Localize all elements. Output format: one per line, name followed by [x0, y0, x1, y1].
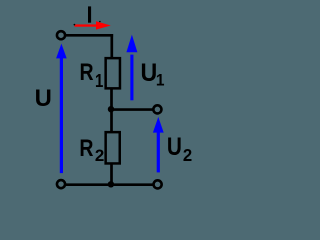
terminal bottom-left	[57, 180, 65, 188]
middle wire to right terminal	[111, 108, 153, 111]
svg-text:R: R	[79, 134, 93, 161]
svg-text:1: 1	[95, 70, 103, 91]
terminal bottom-right	[154, 180, 162, 188]
svg-text:1: 1	[156, 72, 165, 89]
terminal middle-right	[153, 105, 161, 113]
voltage arrow U (blue)	[56, 44, 67, 174]
wire: R1 to junction	[110, 88, 113, 109]
svg-text:U: U	[141, 59, 158, 87]
top wire	[66, 34, 113, 37]
junction node (middle)	[108, 106, 114, 112]
speck at arrow tail	[74, 24, 76, 26]
bottom wire	[66, 183, 153, 186]
wire: R2 down to bottom	[110, 164, 113, 186]
background canvas	[0, 0, 220, 198]
current arrow I (red)	[74, 21, 110, 29]
wire: top branch down to R1	[110, 34, 113, 58]
speck on arrow head	[99, 21, 101, 23]
resistor R1	[106, 58, 120, 88]
svg-text:2: 2	[95, 146, 104, 165]
voltage arrow U2 (blue)	[153, 117, 164, 172]
svg-text:2: 2	[183, 146, 192, 165]
svg-text:R: R	[80, 58, 94, 85]
terminal top-left	[57, 31, 65, 39]
voltage arrow U1 (blue)	[126, 35, 137, 101]
wire: junction down to R2	[110, 109, 113, 132]
label I (current)	[88, 6, 91, 22]
svg-text:U: U	[35, 85, 52, 112]
resistor R2	[106, 132, 120, 163]
junction node (bottom)	[108, 181, 114, 187]
svg-text:U: U	[167, 132, 182, 160]
